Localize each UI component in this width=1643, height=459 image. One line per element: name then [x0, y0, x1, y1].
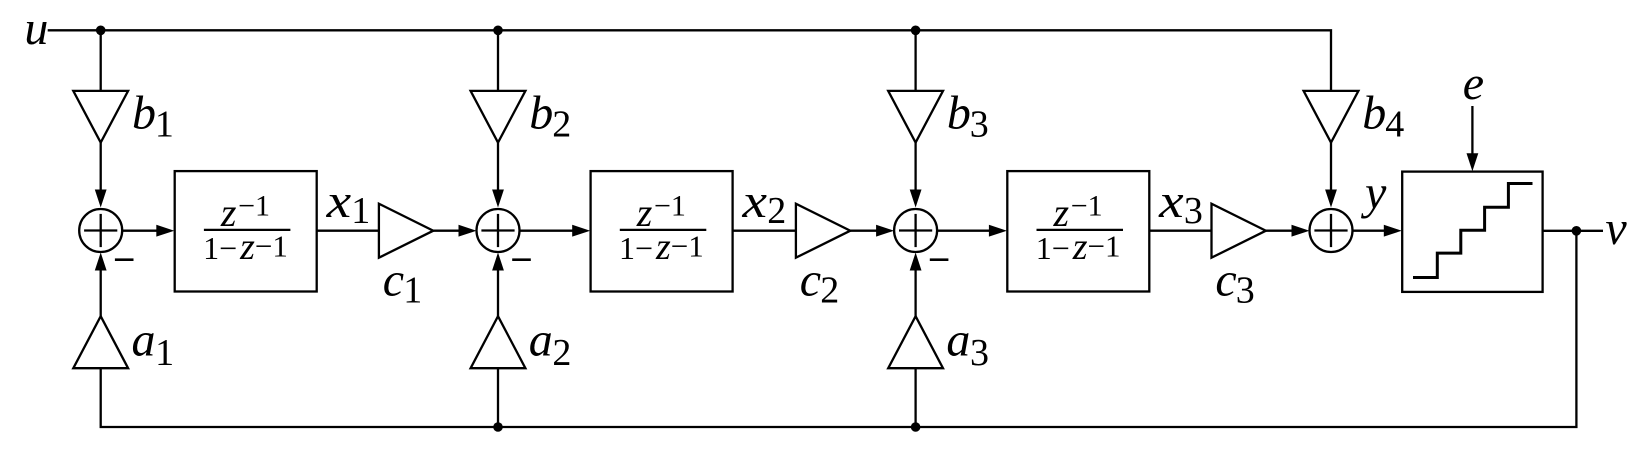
- summing junction S4 circle with plus: [1310, 209, 1353, 252]
- svg-text:−1: −1: [671, 229, 704, 264]
- svg-text:2: 2: [552, 104, 571, 146]
- svg-text:a: a: [132, 314, 156, 367]
- svg-text:2: 2: [552, 332, 571, 374]
- svg-text:a: a: [529, 314, 553, 367]
- wire I1 to gain c1: [317, 230, 379, 232]
- wire drop from top bus to gain b1: [100, 30, 102, 91]
- gain b2 (triangle): [471, 91, 526, 143]
- svg-text:v: v: [1605, 202, 1627, 255]
- svg-text:c: c: [1215, 253, 1236, 306]
- svg-text:x: x: [1158, 175, 1184, 228]
- minus sign at S3 lower input: [930, 258, 949, 261]
- svg-text:b: b: [947, 87, 971, 140]
- svg-text:b: b: [132, 87, 156, 140]
- svg-text:3: 3: [970, 332, 989, 374]
- junction dot top bus column 1: [96, 26, 106, 36]
- summing junction S2 circle with plus: [477, 209, 520, 252]
- svg-text:1: 1: [155, 104, 174, 146]
- wire b1 to summing junction S1 with arrowhead: [100, 143, 102, 191]
- svg-text:2: 2: [767, 190, 786, 232]
- svg-text:−1: −1: [654, 190, 686, 223]
- wire S1 to integrator I1 with arrowhead: [122, 230, 159, 232]
- gain a3 (triangle): [888, 316, 943, 368]
- svg-text:e: e: [1463, 57, 1484, 110]
- svg-text:1−z: 1−z: [203, 226, 255, 268]
- integrator I1 transfer function z^-1/(1-z^-1): [203, 190, 288, 269]
- wire e into quantizer with arrowhead: [1471, 106, 1473, 155]
- junction dot bottom bus column 3: [911, 422, 921, 432]
- integrator I3 box: [1007, 171, 1149, 291]
- svg-text:x: x: [741, 175, 767, 228]
- svg-text:y: y: [1360, 166, 1387, 219]
- svg-text:x: x: [325, 175, 351, 228]
- wire b4 to summing junction S4 with arrowhead: [1330, 143, 1332, 191]
- svg-text:c: c: [383, 253, 404, 306]
- wire c3 to S4 with arrowhead: [1266, 230, 1294, 232]
- wire feedback bottom bus from v node to a1: [101, 231, 1577, 427]
- integrator I2 transfer function z^-1/(1-z^-1): [619, 190, 704, 269]
- quantizer Q box: [1402, 172, 1542, 292]
- wire a3 to S3 with arrowhead: [914, 269, 916, 316]
- wire S4 to quantizer with arrowhead: [1353, 230, 1387, 232]
- minus sign at S1 lower input: [115, 258, 134, 261]
- minus sign at S2 lower input: [512, 258, 531, 261]
- svg-text:c: c: [800, 253, 821, 306]
- svg-text:−1: −1: [238, 190, 270, 223]
- gain c3 (triangle): [1212, 204, 1266, 258]
- summing junction S1 circle with plus: [79, 209, 122, 252]
- svg-text:a: a: [946, 314, 970, 367]
- svg-text:1: 1: [403, 270, 422, 312]
- wire b3 to summing junction S3 with arrowhead: [914, 143, 916, 191]
- wire c1 to S2 with arrowhead: [433, 230, 460, 232]
- gain a2 (triangle): [471, 316, 526, 368]
- svg-text:b: b: [529, 87, 553, 140]
- gain a1 (triangle): [73, 316, 128, 368]
- gain b1 (triangle): [73, 91, 128, 143]
- wire a1 to S1 with arrowhead: [100, 269, 102, 316]
- gain c1 (triangle): [379, 204, 433, 258]
- wire c2 to S3 with arrowhead: [850, 230, 878, 232]
- integrator I1 box: [175, 171, 317, 291]
- wire quantizer output to v: [1543, 230, 1603, 232]
- svg-text:u: u: [24, 2, 48, 55]
- gain b3 (triangle): [888, 91, 943, 143]
- junction dot top bus column 3: [911, 26, 921, 36]
- svg-text:3: 3: [1184, 190, 1203, 232]
- svg-text:1: 1: [351, 190, 370, 232]
- wire drop from top bus to gain b2: [497, 30, 499, 91]
- svg-text:z: z: [636, 190, 653, 235]
- svg-text:1−z: 1−z: [619, 226, 671, 268]
- svg-text:3: 3: [1236, 270, 1255, 312]
- summing junction S3 circle with plus: [894, 209, 937, 252]
- wire bottom bus up to gain a3: [914, 368, 916, 427]
- svg-text:z: z: [1053, 190, 1070, 235]
- wire drop from top bus to gain b3: [914, 30, 916, 91]
- quantizer staircase symbol: [1413, 184, 1533, 278]
- gain b4 (triangle): [1304, 91, 1359, 143]
- svg-text:3: 3: [970, 104, 989, 146]
- svg-text:1: 1: [155, 332, 174, 374]
- svg-text:2: 2: [820, 270, 839, 312]
- junction dot bottom bus column 2: [493, 422, 503, 432]
- svg-text:−1: −1: [255, 229, 288, 264]
- gain c2 (triangle): [796, 204, 850, 258]
- svg-text:4: 4: [1385, 104, 1404, 146]
- junction dot output node: [1572, 226, 1582, 236]
- integrator I3 transfer function z^-1/(1-z^-1): [1036, 190, 1121, 269]
- wire I2 to gain c2: [733, 230, 796, 232]
- svg-text:b: b: [1362, 87, 1386, 140]
- svg-text:z: z: [220, 190, 237, 235]
- wire b2 to summing junction S2 with arrowhead: [497, 143, 499, 191]
- wire I3 to gain c3: [1149, 230, 1211, 232]
- wire top bus from u to b4 branch: [48, 30, 1331, 91]
- integrator I2 box: [591, 171, 733, 291]
- wire a2 to S2 with arrowhead: [497, 269, 499, 316]
- wire bottom bus up to gain a2: [497, 368, 499, 427]
- svg-text:−1: −1: [1088, 229, 1121, 264]
- junction dot top bus column 2: [493, 26, 503, 36]
- wire S2 to integrator I2 with arrowhead: [520, 230, 575, 232]
- svg-text:1−z: 1−z: [1036, 226, 1088, 268]
- wire S3 to integrator I3 with arrowhead: [937, 230, 991, 232]
- svg-text:−1: −1: [1071, 190, 1103, 223]
